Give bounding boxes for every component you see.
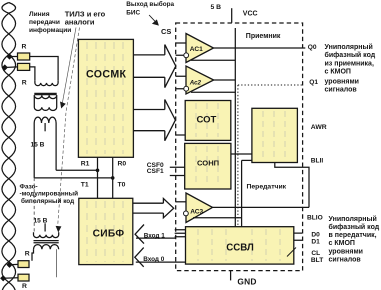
svg-text:СОСМК: СОСМК — [86, 68, 127, 80]
svg-text:уровнями: уровнями — [325, 78, 359, 85]
block СОТ — [185, 101, 231, 141]
comparator АС1 — [186, 34, 214, 63]
winding: chip-side loop of lower transformer (scalloped) — [34, 232, 59, 237]
svg-text:BLIO: BLIO — [307, 214, 323, 221]
svg-text:BLII: BLII — [311, 157, 324, 164]
svg-text:Вход 1: Вход 1 — [144, 233, 166, 240]
transformer ТИЛЗ core + windings — [34, 93, 56, 95]
svg-text:5 В: 5 В — [211, 4, 222, 11]
winding: line-side loop of upper transformer (scalloped bottom) — [35, 81, 58, 86]
svg-text:GND: GND — [237, 277, 256, 287]
bus arrow 2 into БИС — [165, 100, 176, 141]
wire: lower coil left lead to R — [32, 249, 34, 261]
inverting input circle АС3 — [184, 211, 189, 216]
svg-text:ССВЛ: ССВЛ — [226, 243, 254, 254]
svg-text:СОТ: СОТ — [197, 114, 217, 125]
block СОСМК — [78, 39, 133, 157]
svg-text:CL: CL — [311, 250, 320, 257]
winding: chip-side coil of upper transformer — [34, 117, 56, 123]
input arrow Вход 1 (points into СИБФ) — [135, 225, 144, 244]
svg-text:D0: D0 — [311, 231, 320, 238]
stubs D0 D1 — [294, 233, 302, 240]
stubs into ССВЛ left (3) — [175, 230, 186, 237]
wire: lower transformer center tap — [44, 223, 46, 231]
wire: АС1 feedback — [191, 59, 235, 61]
GND pin — [230, 271, 232, 281]
svg-text:CSF1: CSF1 — [147, 168, 164, 175]
wire: coil right leg down to R line — [55, 123, 57, 170]
wire: left leg down to lower transformer (dashed in scan) — [33, 178, 35, 233]
svg-text:сигналов: сигналов — [325, 86, 358, 93]
inverting input circle Ас2 — [184, 86, 189, 91]
svg-text:AWR: AWR — [311, 124, 327, 131]
wire: under АС3 to bus C — [193, 217, 242, 219]
vertical bus C — [241, 160, 243, 226]
wire: АС1 output to Q0 — [214, 47, 306, 49]
svg-text:R1: R1 — [81, 161, 90, 168]
stubs into АС1 — [176, 43, 186, 55]
comparator АС3 — [186, 193, 213, 223]
svg-text:биполярный код: биполярный код — [21, 197, 74, 205]
input arrow Вход 0 — [135, 248, 144, 267]
svg-text:15 В: 15 В — [31, 142, 45, 149]
node: junction on R1 pin — [96, 169, 100, 173]
svg-text:R0: R0 — [118, 161, 127, 168]
svg-text:Приемник: Приемник — [246, 33, 281, 40]
wire: R1 line — [56, 169, 97, 171]
svg-text:Q1: Q1 — [309, 79, 318, 86]
svg-text:R: R — [22, 283, 27, 290]
vertical bus A — [234, 28, 236, 227]
winding: line-side coil of lower transformer — [34, 245, 59, 250]
svg-text:передачи: передачи — [29, 19, 60, 26]
svg-text:аналоги: аналоги — [65, 17, 95, 26]
dotted divider (Передатчик box) — [238, 84, 303, 86]
wire: bus C to driver — [242, 159, 252, 161]
node: junction on T0 pin — [111, 176, 115, 180]
resistor R (top 1) — [18, 53, 30, 60]
svg-text:-модулированный: -модулированный — [20, 190, 79, 198]
resistor R (top 2) — [18, 63, 30, 70]
svg-text:Ас2: Ас2 — [189, 79, 202, 86]
svg-text:с КМОП: с КМОП — [325, 69, 351, 76]
pin R1/T1 vertical — [97, 157, 99, 198]
annotation: receiver code — [325, 43, 376, 93]
wire: АС3 output / BLIO — [213, 206, 310, 208]
inverting input circle АС1 — [184, 53, 189, 58]
wire: lower coil right lead — [56, 249, 58, 277]
svg-text:Униполярный: Униполярный — [329, 215, 377, 223]
svg-text:D1: D1 — [311, 238, 320, 245]
svg-text:R: R — [25, 251, 30, 258]
svg-text:Вход 0: Вход 0 — [143, 256, 165, 263]
wire R to transformer left lead — [30, 67, 35, 81]
svg-text:Линия: Линия — [29, 11, 50, 18]
svg-text:Униполярный: Униполярный — [325, 43, 373, 51]
node: line tap 3 — [6, 262, 12, 268]
svg-text:CS: CS — [161, 27, 171, 36]
stubs into Ас2 — [176, 76, 186, 88]
block СИБФ — [79, 198, 133, 264]
wire tap4 to R — [3, 277, 18, 280]
wire: Ас2 feedback — [191, 91, 235, 93]
slash mark at ССВЛ corner — [287, 248, 296, 257]
wire: transmission line twisted pair (braid), strand 1 — [2, 3, 16, 290]
svg-text:бифазный код: бифазный код — [325, 51, 376, 59]
svg-text:Передатчик: Передатчик — [247, 184, 287, 191]
wire: transmission line twisted pair (braid), strand 2 — [2, 3, 16, 290]
wires: СОСМК outputs (4) — [133, 55, 164, 131]
node: line tap 4 — [0, 275, 6, 281]
wire tap3 to R — [10, 263, 19, 265]
leader line to lower transformer (dashed) — [58, 28, 80, 228]
CSF0 / CSF1 stubs — [170, 167, 185, 175]
svg-text:в передатчик,: в передатчик, — [329, 232, 377, 239]
comparator Ас2 — [186, 66, 214, 94]
wire: T line — [34, 177, 113, 179]
block ССВЛ — [186, 227, 294, 264]
svg-text:R: R — [22, 43, 27, 50]
svg-text:R: R — [22, 80, 27, 87]
wire: driver output to BLII loop — [275, 163, 309, 208]
wire: coil left leg down to T line — [33, 123, 35, 178]
svg-text:уровнями: уровнями — [329, 248, 363, 255]
svg-text:BLT: BLT — [311, 257, 323, 264]
stub into АС3 — [176, 201, 186, 203]
bus arrow 3 into АС3 — [163, 199, 173, 218]
transformer core (lower) — [34, 241, 59, 243]
svg-text:Фазо-: Фазо- — [20, 183, 38, 190]
svg-text:T1: T1 — [81, 182, 89, 189]
svg-text:АС3: АС3 — [190, 208, 203, 215]
resistor R (bottom 1) — [18, 261, 29, 268]
wire R to transformer right lead — [30, 57, 58, 81]
block СОНП — [185, 143, 231, 189]
svg-text:АС1: АС1 — [190, 46, 203, 53]
wire: Ас2 output — [214, 79, 236, 81]
pin R0/T0 vertical — [112, 157, 114, 198]
svg-text:с КМОП: с КМОП — [329, 240, 355, 247]
block without label (driver) — [252, 108, 298, 162]
svg-text:Выход выбора: Выход выбора — [126, 0, 174, 8]
svg-text:бифазный код: бифазный код — [329, 223, 380, 231]
wires: СИБФ outputs to arrow 3 — [133, 203, 164, 213]
svg-text:информации: информации — [29, 27, 71, 34]
svg-text:сигналов: сигналов — [329, 256, 362, 263]
resistor R (bottom 2) — [18, 274, 29, 281]
svg-text:СИБФ: СИБФ — [93, 229, 125, 240]
wire tap1 to R — [10, 56, 18, 58]
annotation: transmitter code — [329, 215, 380, 264]
svg-text:БИС: БИС — [126, 9, 140, 16]
leader line to upper transformer — [62, 28, 76, 106]
wire tap2 to R — [5, 66, 18, 69]
dashed box: БИС outline — [176, 23, 303, 271]
bus arrow 1 into БИС — [165, 45, 176, 88]
node: line tap 1 — [6, 53, 12, 59]
svg-text:из приемника,: из приемника, — [325, 60, 374, 67]
svg-text:T0: T0 — [118, 182, 126, 189]
svg-text:СОНП: СОНП — [197, 158, 219, 167]
node: line tap 2 — [2, 64, 8, 70]
stub into СОТ — [176, 134, 186, 136]
svg-text:Q0: Q0 — [308, 44, 317, 51]
svg-text:VCC: VCC — [243, 10, 258, 17]
wire: coil center tap — [44, 123, 46, 131]
wire: СОНП to driver — [231, 153, 252, 155]
